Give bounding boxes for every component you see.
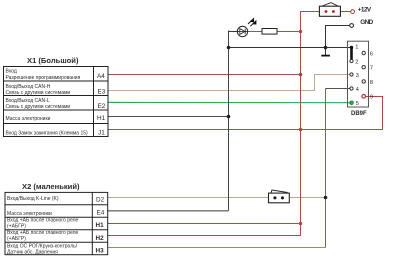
- svg-text:E4: E4: [97, 210, 105, 217]
- svg-text:E2: E2: [98, 103, 106, 110]
- svg-text:H1: H1: [97, 115, 106, 122]
- svg-text:X2 (маленький): X2 (маленький): [22, 182, 80, 191]
- svg-text:9: 9: [370, 94, 373, 100]
- svg-text:Масса электроники: Масса электроники: [7, 211, 52, 217]
- svg-text:1: 1: [355, 45, 358, 51]
- svg-text:8: 8: [370, 80, 373, 86]
- svg-text:5: 5: [356, 101, 359, 107]
- svg-text:(+АБГР): (+АБГР): [7, 236, 26, 242]
- svg-text:H2: H2: [96, 235, 105, 242]
- svg-text:Вход: Вход: [6, 69, 17, 75]
- svg-text:3: 3: [356, 73, 359, 79]
- svg-text:Связь с другими системами: Связь с другими системами: [6, 104, 71, 110]
- svg-text:2: 2: [355, 59, 358, 65]
- svg-text:GND: GND: [360, 19, 373, 26]
- svg-text:DB9F: DB9F: [351, 111, 367, 117]
- svg-text:Вход Замок зажигания (Клемма 1: Вход Замок зажигания (Клемма 15): [6, 131, 89, 137]
- svg-text:D2: D2: [96, 197, 105, 204]
- svg-text:6: 6: [370, 51, 373, 57]
- svg-text:(+АБГР): (+АБГР): [7, 223, 26, 229]
- svg-text:J1: J1: [98, 130, 105, 137]
- svg-text:Вход/Выход K-Line (K): Вход/Выход K-Line (K): [7, 196, 59, 202]
- svg-text:H1: H1: [96, 222, 105, 229]
- svg-text:Связь с другими системами: Связь с другими системами: [6, 90, 71, 96]
- svg-text:+12V: +12V: [358, 7, 372, 14]
- svg-text:A4: A4: [97, 73, 105, 80]
- svg-text:Датчик абс. Давления: Датчик абс. Давления: [7, 249, 58, 255]
- svg-text:4: 4: [356, 87, 359, 93]
- svg-text:X1 (Большой): X1 (Большой): [27, 56, 79, 65]
- svg-text:E3: E3: [98, 89, 106, 96]
- svg-text:H3: H3: [96, 248, 105, 255]
- svg-text:Разрешение программирования: Разрешение программирования: [6, 75, 81, 81]
- svg-text:Масса электроники: Масса электроники: [6, 116, 51, 122]
- svg-text:7: 7: [370, 66, 373, 72]
